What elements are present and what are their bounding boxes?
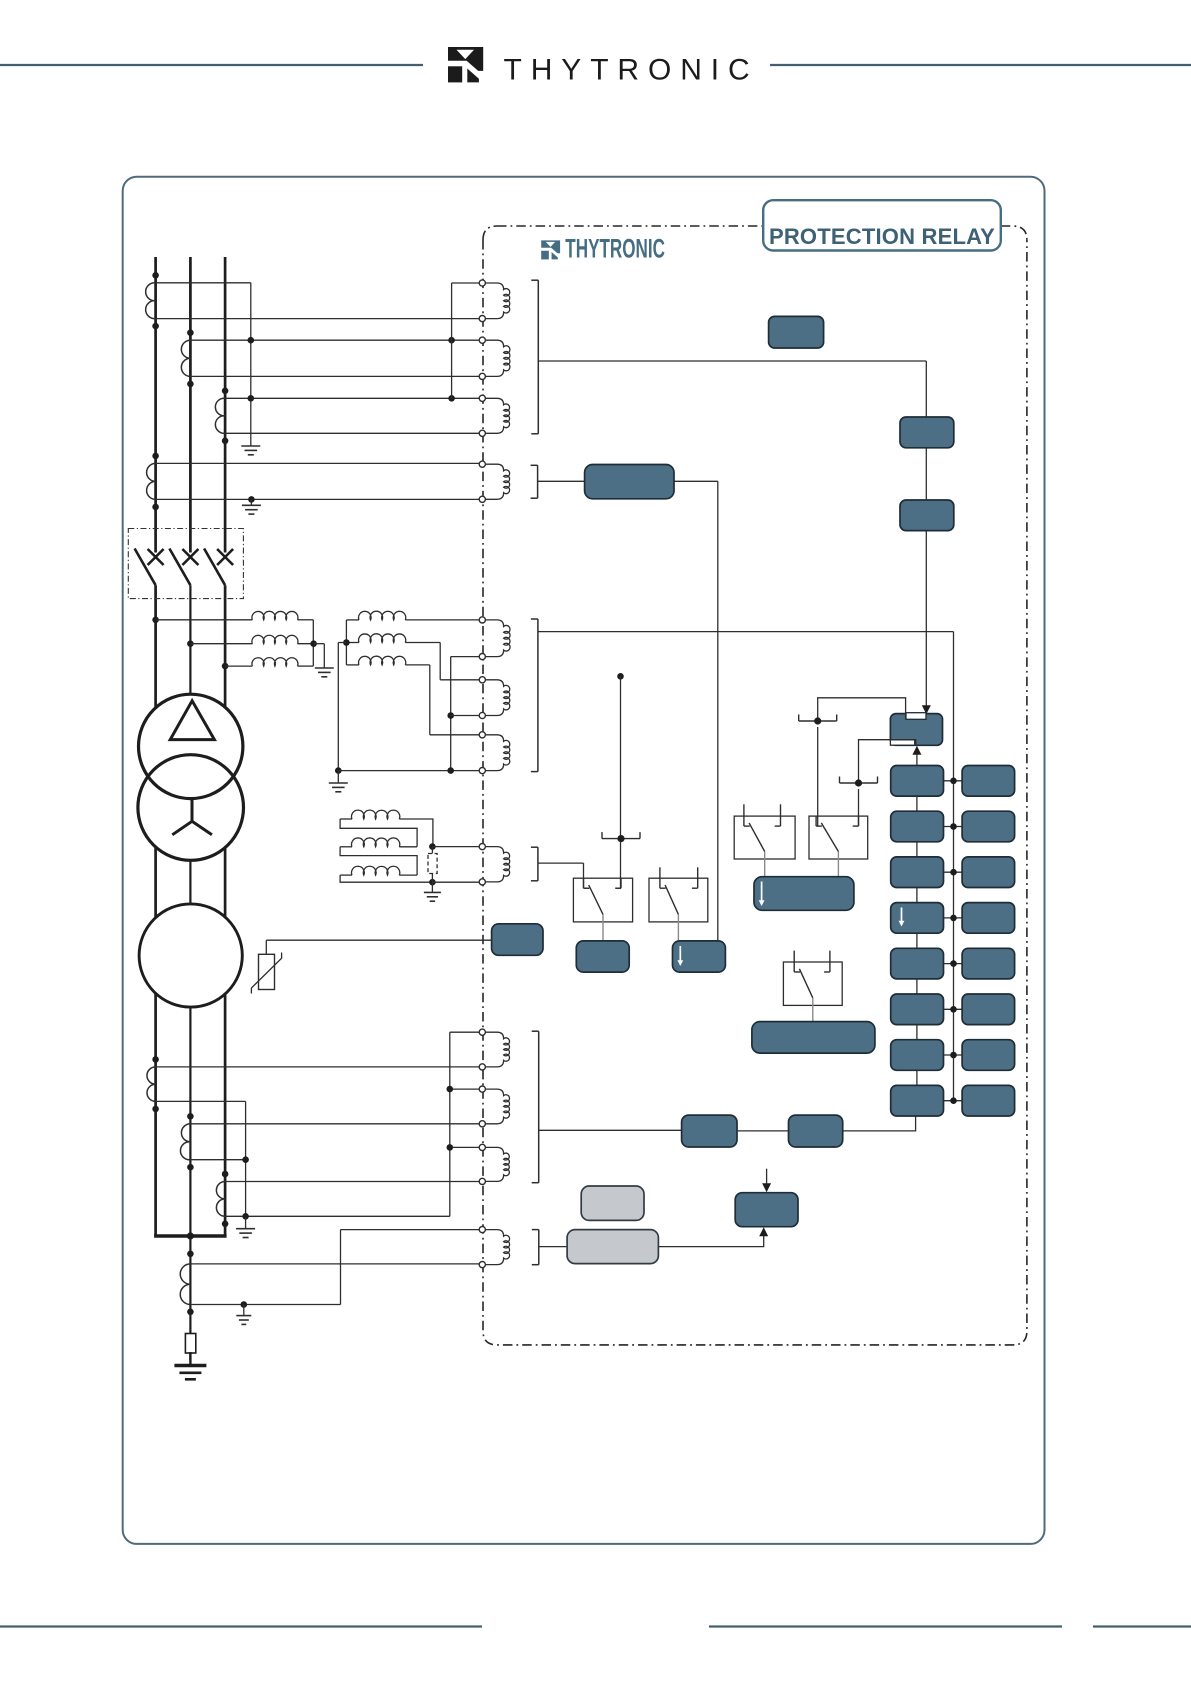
svg-text:PROTECTION RELAY: PROTECTION RELAY — [769, 224, 995, 249]
svg-text:THYTRONIC: THYTRONIC — [504, 54, 759, 87]
svg-text:THYTRONIC: THYTRONIC — [565, 234, 665, 264]
